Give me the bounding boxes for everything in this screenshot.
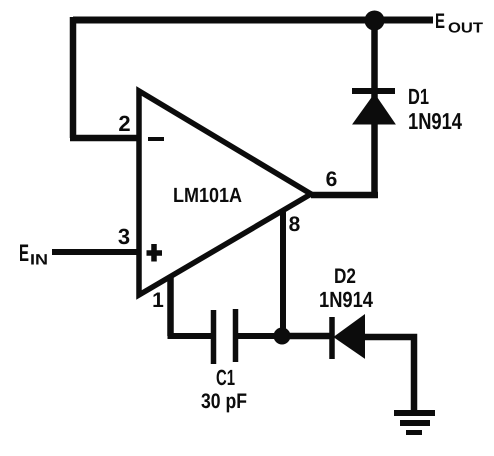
svg-text:8: 8 [289, 213, 301, 236]
wire: pin 8 vertical [280, 212, 286, 336]
svg-text:1: 1 [152, 289, 164, 312]
wire: feedback top horizontal to E_OUT [73, 17, 433, 24]
svg-text:D2: D2 [334, 265, 356, 288]
wire: D1 vertical branch [371, 17, 378, 198]
op-amp non-inverting input plus sign [147, 244, 163, 262]
wire: C1 right plate to junction [238, 333, 280, 339]
svg-text:1N914: 1N914 [408, 108, 462, 134]
junction node pin8/C1/D2 [274, 328, 291, 345]
capacitor C1 right plate [233, 309, 239, 362]
wire: pin 2 horizontal [70, 135, 141, 142]
wire: D2 anode to ground drop [364, 337, 414, 413]
svg-text:30 pF: 30 pF [201, 390, 247, 413]
capacitor C1 left plate [211, 310, 217, 364]
ground symbol middle bar [400, 420, 430, 426]
wire: feedback left vertical [70, 17, 77, 138]
svg-text:D1: D1 [408, 84, 429, 109]
svg-text:1N914: 1N914 [319, 287, 374, 312]
svg-text:C1: C1 [216, 365, 235, 390]
op-amp U1 LM101A triangle [139, 91, 311, 295]
diode D1 cathode bar [352, 88, 395, 94]
svg-text:6: 6 [326, 168, 338, 191]
svg-text:LM101A: LM101A [173, 184, 242, 207]
ground symbol top bar [394, 410, 435, 416]
wire: pin 6 output horizontal [311, 192, 378, 199]
diode D1 triangle [354, 95, 394, 124]
junction node at E_OUT [365, 11, 385, 31]
wire: pin1 to C1 left plate [168, 333, 213, 339]
wire: pin 1 vertical [167, 277, 174, 336]
op-amp inverting input minus sign [148, 137, 164, 141]
diode D2 triangle [335, 316, 364, 357]
svg-text:E: E [19, 240, 29, 267]
ground symbol bottom bar [406, 430, 422, 435]
wire: pin 3 input horizontal [52, 249, 139, 255]
wire: junction to D2 cathode [286, 333, 332, 340]
svg-text:IN: IN [30, 252, 48, 269]
svg-text:E: E [435, 10, 445, 33]
svg-text:3: 3 [118, 224, 130, 249]
svg-text:2: 2 [118, 111, 130, 136]
svg-text:OUT: OUT [448, 21, 483, 37]
diode D2 cathode bar [329, 317, 335, 359]
